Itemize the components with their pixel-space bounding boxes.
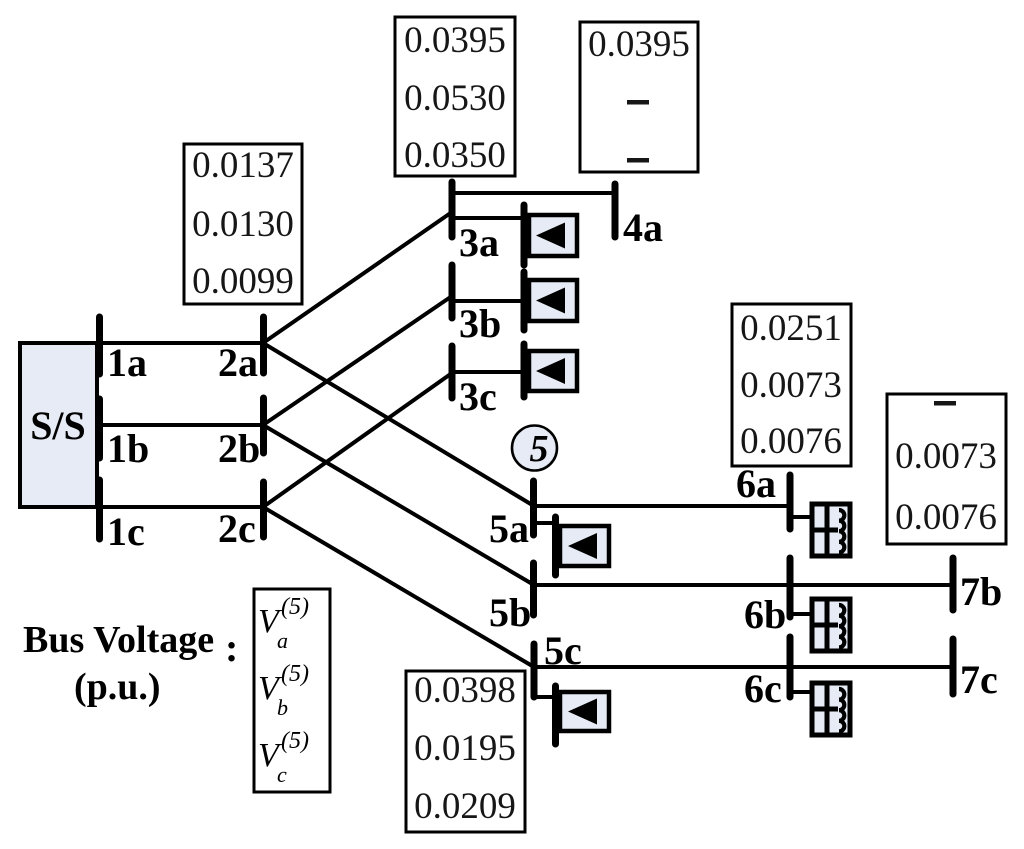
bus 3b [449, 265, 456, 318]
bus 1b [96, 399, 103, 458]
svg-text:7c: 7c [960, 657, 998, 702]
wire 1c-2c [97, 505, 263, 509]
svg-text:0.0076: 0.0076 [895, 497, 997, 538]
svg-text:3c: 3c [459, 374, 497, 419]
wire 3a-4a [452, 191, 615, 195]
svg-text:5c: 5c [544, 628, 582, 673]
legend Bus Voltage [23, 619, 238, 708]
substation S/S box [20, 343, 97, 507]
svg-text:0.0076: 0.0076 [740, 421, 842, 462]
svg-text:0.0137: 0.0137 [192, 145, 294, 186]
bus 7b [950, 558, 957, 610]
feeder diagonal 2a-3a [263, 212, 452, 343]
svg-text:3a: 3a [459, 220, 499, 265]
svg-text:2c: 2c [218, 506, 256, 551]
feeder diagonal 2c-3c [263, 373, 452, 507]
legend V symbols box [254, 589, 330, 792]
svg-text:0.0398: 0.0398 [414, 670, 516, 711]
svg-text:6b: 6b [744, 592, 786, 637]
svg-text:6a: 6a [736, 461, 776, 506]
svg-text:0.0395: 0.0395 [404, 20, 506, 61]
wire 3c-load [452, 370, 524, 374]
bus 6a [787, 475, 794, 529]
load at 3a [524, 205, 577, 265]
svg-text:0.0073: 0.0073 [895, 436, 997, 477]
svg-text:7b: 7b [960, 569, 1002, 614]
svg-text:(5): (5) [281, 661, 309, 687]
bus 6b [787, 558, 794, 617]
svg-text:(p.u.): (p.u.) [74, 666, 161, 708]
svg-text:b: b [277, 695, 288, 720]
bus 5c [531, 644, 538, 697]
bus 6c [787, 637, 794, 697]
wire 6a-transformer [790, 515, 812, 519]
svg-text:(5): (5) [281, 594, 309, 620]
bus 4a [612, 184, 619, 237]
transformer at 6a [812, 504, 850, 556]
transformer at 6c [812, 683, 850, 735]
feeder diagonal 2a-5a [263, 343, 534, 506]
bus 1a [96, 317, 103, 374]
wire 3b-load [452, 299, 524, 303]
svg-text:0.0195: 0.0195 [414, 728, 516, 769]
svg-text:6c: 6c [744, 666, 782, 711]
svg-text:5a: 5a [489, 506, 529, 551]
svg-text:0.0530: 0.0530 [404, 78, 506, 119]
svg-text:c: c [277, 762, 287, 787]
svg-text:2b: 2b [218, 426, 260, 471]
value box bus 4 [580, 22, 698, 172]
svg-text:0.0395: 0.0395 [588, 24, 690, 65]
wire 1b-2b [97, 423, 263, 427]
svg-text::: : [225, 625, 238, 670]
wire 5b-7b [534, 583, 953, 587]
bus 5a [530, 481, 537, 535]
feeder diagonal 2b-5b [263, 425, 534, 585]
bus 3a [449, 182, 456, 237]
wire 3a-load [452, 216, 524, 220]
svg-text:a: a [277, 628, 288, 653]
bus 3c [449, 346, 456, 398]
svg-text:Bus Voltage: Bus Voltage [23, 619, 214, 661]
node 5 circle [512, 426, 557, 471]
wire 5c-7c [534, 665, 953, 669]
wire 5a-load [534, 521, 556, 525]
svg-text:0.0099: 0.0099 [192, 261, 294, 302]
wire 6b-transformer [790, 612, 812, 616]
wire 5c-load [534, 695, 556, 699]
svg-text:0.0130: 0.0130 [192, 204, 294, 245]
feeder diagonal 2b-3b [263, 296, 452, 425]
bus 7c [950, 639, 957, 694]
svg-text:1c: 1c [107, 509, 145, 554]
wire 6c-transformer [790, 690, 812, 694]
svg-text:(5): (5) [281, 728, 309, 754]
feeder diagonal 2c-5c [263, 507, 534, 667]
bus 1c [96, 480, 103, 539]
bus 5b [530, 563, 537, 615]
load at 3b [524, 272, 577, 330]
value box bus 2 [184, 144, 302, 304]
load at 5a [556, 517, 610, 575]
svg-text:4a: 4a [623, 205, 663, 250]
svg-text:3b: 3b [459, 301, 501, 346]
bus 2c [260, 482, 267, 537]
svg-text:1b: 1b [107, 426, 149, 471]
value box bus 7 [887, 394, 1006, 544]
load at 5c [556, 686, 610, 744]
load at 3c [524, 344, 577, 397]
svg-text:1a: 1a [107, 340, 147, 385]
bus 2b [260, 398, 267, 453]
wire 1a-2a [97, 341, 263, 345]
svg-text:0.0209: 0.0209 [414, 786, 516, 827]
svg-text:0.0073: 0.0073 [740, 365, 842, 406]
svg-text:5b: 5b [489, 590, 531, 635]
wire 5a-6a [534, 504, 790, 508]
value box bus 3 [395, 17, 515, 176]
transformer at 6b [812, 599, 850, 651]
svg-text:0.0350: 0.0350 [404, 135, 506, 176]
svg-text:2a: 2a [218, 340, 258, 385]
value box bus 5 [406, 670, 525, 832]
bus 2a [260, 317, 267, 373]
svg-text:5: 5 [530, 428, 549, 470]
svg-text:0.0251: 0.0251 [740, 308, 842, 349]
value box bus 6 [732, 304, 851, 466]
svg-text:S/S: S/S [30, 403, 86, 448]
